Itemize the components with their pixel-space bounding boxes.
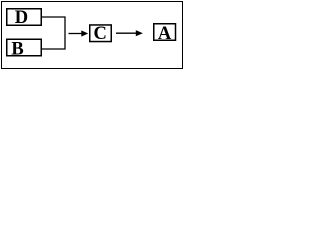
arrow to A xyxy=(116,30,143,36)
svg-text:B: B xyxy=(11,39,23,59)
svg-text:C: C xyxy=(94,24,107,44)
box D xyxy=(7,8,42,28)
svg-text:D: D xyxy=(15,8,28,28)
svg-text:A: A xyxy=(158,24,172,44)
box A xyxy=(154,24,176,44)
box C xyxy=(90,24,112,44)
outer frame xyxy=(2,2,183,69)
arrow to C xyxy=(69,30,89,36)
wire D-B bracket xyxy=(42,17,65,49)
box B xyxy=(7,39,42,59)
